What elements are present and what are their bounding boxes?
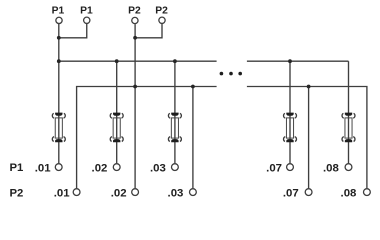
svg-text:P1: P1 [80, 6, 93, 17]
svg-text:.08: .08 [341, 188, 357, 200]
svg-text:.07: .07 [266, 162, 282, 174]
svg-text:P1: P1 [52, 6, 65, 17]
svg-text:P1: P1 [10, 162, 24, 174]
svg-text:.02: .02 [92, 162, 108, 174]
svg-text:.07: .07 [283, 188, 299, 200]
svg-text:.01: .01 [54, 188, 70, 200]
svg-text:.02: .02 [111, 188, 127, 200]
svg-text:.03: .03 [150, 162, 166, 174]
svg-text:P2: P2 [128, 6, 141, 17]
svg-text:.01: .01 [35, 162, 51, 174]
svg-text:.08: .08 [323, 162, 339, 174]
svg-text:P2: P2 [10, 188, 24, 200]
svg-text:P2: P2 [155, 6, 168, 17]
svg-text:.03: .03 [168, 188, 184, 200]
